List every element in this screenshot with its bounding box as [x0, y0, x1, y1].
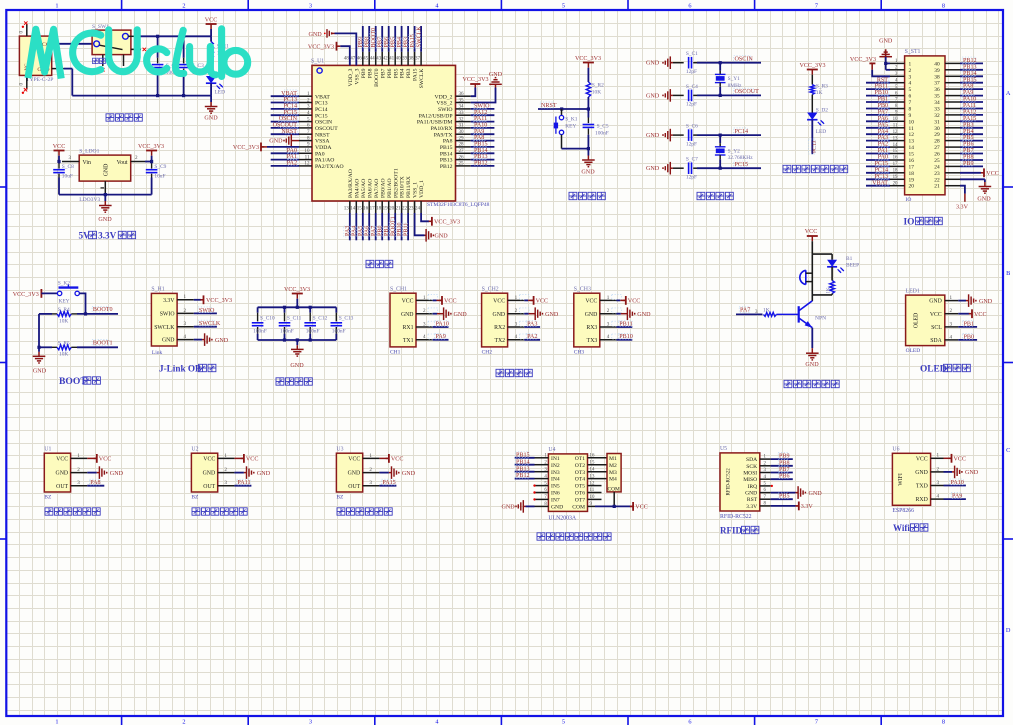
svg-text:24: 24	[934, 164, 940, 170]
svg-text:KEY: KEY	[59, 298, 70, 304]
svg-text:PA1: PA1	[287, 154, 297, 160]
svg-text:S_ST1: S_ST1	[905, 49, 921, 55]
connector T1 TYPE-C-2P	[19, 24, 65, 90]
U4 input net wires PB15-PB12	[515, 452, 535, 480]
svg-text:10: 10	[909, 119, 915, 125]
svg-text:PA3/RX/AO: PA3/RX/AO	[348, 169, 354, 198]
svg-text:1: 1	[224, 453, 227, 459]
svg-text:VCC: VCC	[493, 299, 505, 305]
ground of filter	[290, 340, 304, 369]
svg-text:PB13: PB13	[963, 64, 977, 70]
svg-text:32.768KHz: 32.768KHz	[728, 155, 754, 161]
svg-text:M4: M4	[609, 477, 617, 483]
U3 net connections	[379, 454, 415, 486]
svg-text:SWCLK: SWCLK	[199, 321, 221, 327]
svg-text:44: 44	[370, 56, 376, 62]
CH3 net connections	[617, 296, 652, 340]
svg-text:20: 20	[893, 181, 898, 186]
svg-text:PA10: PA10	[951, 480, 964, 486]
power VCC at U6 pin1	[944, 454, 967, 463]
svg-text:PA7/AO: PA7/AO	[374, 179, 380, 198]
svg-text:PB1/AO: PB1/AO	[387, 178, 393, 198]
svg-text:PB10: PB10	[619, 334, 633, 340]
svg-text:PA10: PA10	[474, 123, 487, 129]
svg-text:IO: IO	[904, 218, 915, 228]
ground at U5 pin6	[771, 486, 823, 499]
svg-text:2: 2	[515, 308, 518, 314]
svg-text:S_C1: S_C1	[686, 51, 698, 57]
svg-text:13: 13	[893, 136, 898, 141]
svg-text:RXD: RXD	[916, 497, 928, 503]
svg-text:GND: GND	[979, 299, 993, 305]
svg-text:PA11: PA11	[963, 103, 976, 109]
svg-text:PA2: PA2	[878, 142, 888, 148]
svg-text:KEY: KEY	[565, 124, 576, 130]
svg-text:VCC_3V3: VCC_3V3	[206, 298, 232, 304]
svg-text:7: 7	[815, 3, 818, 10]
svg-text:2: 2	[369, 467, 372, 473]
svg-text:Vin: Vin	[83, 160, 91, 166]
svg-text:PB14: PB14	[440, 151, 453, 157]
wire PA9 net at U6	[944, 493, 966, 500]
svg-text:IN2: IN2	[551, 463, 560, 469]
svg-text:12pF: 12pF	[686, 141, 697, 147]
svg-text:IN7: IN7	[551, 498, 560, 504]
svg-text:PB1: PB1	[964, 321, 975, 327]
svg-text:PA10: PA10	[963, 97, 976, 103]
svg-text:PB6: PB6	[387, 68, 393, 78]
svg-text:28: 28	[459, 142, 465, 148]
IR obstacle module U2	[191, 447, 234, 501]
svg-text:PA8: PA8	[90, 480, 100, 486]
svg-text:2: 2	[909, 68, 912, 74]
capacitor C8	[53, 162, 74, 195]
wire SWIO net	[194, 307, 217, 314]
no-connect dots on U4 pins 5-7	[533, 484, 535, 500]
svg-text:12pF: 12pF	[686, 69, 697, 75]
capacitor C13 of filter	[331, 307, 354, 340]
svg-text:PB7: PB7	[963, 148, 974, 154]
U1 left pins 1-12	[299, 91, 344, 170]
svg-text:1: 1	[55, 3, 58, 10]
svg-text:LED1: LED1	[906, 288, 920, 294]
svg-text:BZ: BZ	[336, 495, 344, 501]
wire PB0 net at OLED	[958, 333, 977, 340]
svg-text:PB5: PB5	[963, 135, 974, 141]
svg-text:4: 4	[607, 334, 610, 340]
svg-text:3: 3	[909, 74, 912, 80]
svg-text:2: 2	[182, 3, 185, 10]
svg-text:S_R5: S_R5	[58, 340, 70, 346]
svg-text:A: A	[1006, 90, 1011, 97]
svg-text:22: 22	[402, 206, 408, 212]
svg-text:VCC: VCC	[205, 17, 218, 23]
svg-text:U6: U6	[892, 447, 899, 453]
svg-text:PB6: PB6	[963, 142, 974, 148]
svg-text:PC14: PC14	[315, 107, 328, 113]
microcontroller U1 STM32F103C8T6 body	[311, 58, 490, 208]
svg-text:BEEP: BEEP	[846, 263, 859, 269]
svg-text:COM: COM	[572, 505, 585, 511]
stepper driver U4 ULN2003A body and pins	[535, 447, 595, 521]
svg-text:OLED: OLED	[906, 348, 921, 354]
buzzer B1	[800, 270, 813, 284]
svg-text:PB3: PB3	[963, 122, 974, 128]
section label 红外避障模块 U1	[45, 508, 100, 515]
svg-text:S_U1: S_U1	[311, 58, 324, 64]
svg-text:RFID-RC522: RFID-RC522	[727, 468, 732, 496]
U1 right pins 36-25	[417, 91, 471, 170]
ground at U1 pin47	[309, 29, 357, 65]
svg-text:IN3: IN3	[551, 470, 560, 476]
svg-text:28: 28	[934, 139, 940, 145]
stepper motor connector M1-M4	[607, 454, 621, 493]
svg-text:36: 36	[459, 91, 465, 97]
MCUclub logo overlay	[28, 29, 248, 79]
svg-text:45: 45	[363, 56, 369, 62]
svg-text:PA4: PA4	[878, 129, 888, 135]
svg-text:3: 3	[607, 321, 610, 327]
svg-text:SDA: SDA	[930, 338, 942, 344]
ground at ST1 pins 1-2	[879, 38, 893, 70]
wire power bottom bus	[64, 69, 211, 98]
svg-text:38: 38	[409, 56, 415, 62]
svg-text:GND: GND	[203, 471, 216, 477]
wire BOOT1 net	[77, 340, 118, 348]
svg-text:PA5/AO: PA5/AO	[361, 179, 367, 198]
svg-text:20: 20	[909, 184, 915, 190]
ground at ST1 pin22	[960, 179, 991, 202]
svg-text:PB9: PB9	[361, 68, 367, 78]
svg-text:PA11: PA11	[237, 480, 250, 486]
svg-text:14: 14	[350, 206, 356, 212]
svg-text:PB2/BOOT1: PB2/BOOT1	[393, 168, 399, 198]
svg-text:VCC: VCC	[246, 457, 259, 463]
svg-text:PA0: PA0	[315, 151, 325, 157]
svg-text:PA12: PA12	[474, 110, 487, 116]
svg-text:VCC_3V3: VCC_3V3	[434, 220, 460, 226]
LED D1	[206, 70, 231, 96]
svg-text:VCC_3V3: VCC_3V3	[799, 63, 825, 69]
svg-text:PA9: PA9	[952, 494, 962, 500]
svg-text:GND: GND	[348, 471, 361, 477]
svg-text:VCC_3V3: VCC_3V3	[138, 144, 164, 150]
svg-text:PA12: PA12	[963, 110, 976, 116]
svg-text:VBAT: VBAT	[315, 94, 330, 100]
U1 right net wires and labels	[471, 103, 495, 167]
svg-text:SDA: SDA	[746, 457, 757, 463]
svg-text:S_C8: S_C8	[62, 164, 74, 170]
svg-text:2: 2	[77, 467, 80, 473]
svg-text:23: 23	[934, 171, 940, 177]
svg-text:PB0: PB0	[877, 103, 888, 109]
svg-text:VSS_2: VSS_2	[436, 101, 452, 107]
svg-text:S_LDO1: S_LDO1	[79, 149, 99, 155]
svg-text:S_C4: S_C4	[686, 84, 698, 90]
capacitor C2	[152, 36, 180, 95]
svg-text:GND: GND	[104, 164, 110, 177]
svg-text:GND: GND	[977, 197, 991, 203]
svg-text:GND: GND	[929, 299, 942, 305]
svg-text:38: 38	[934, 74, 940, 80]
capacitor C1 with OSCIN net	[646, 51, 761, 75]
svg-text:SWIO: SWIO	[438, 107, 453, 113]
svg-text:PC13: PC13	[874, 174, 888, 180]
ST1 right net wires and labels	[960, 57, 983, 167]
power VCC_3V3 at U1 pin9 VDDA	[233, 143, 299, 152]
section label BOOT电路	[59, 376, 100, 387]
U1 bottom pins 13-24	[344, 168, 425, 213]
svg-text:Link: Link	[152, 350, 163, 356]
svg-text:6: 6	[688, 3, 691, 10]
power 3.3V at U5 pin8	[771, 502, 814, 511]
U2 net connections	[234, 454, 270, 486]
U1 top pins 48-37	[344, 52, 425, 89]
svg-text:SWCLK: SWCLK	[417, 26, 423, 48]
svg-text:OT7: OT7	[575, 498, 585, 504]
svg-text:13: 13	[344, 206, 350, 212]
svg-text:42: 42	[383, 56, 389, 62]
U5 SPI net wires PB9-PB6	[771, 453, 793, 480]
svg-text:PB4: PB4	[963, 129, 974, 135]
no-connect dot on U5 IRQ	[771, 485, 773, 487]
svg-text:VCC: VCC	[348, 457, 360, 463]
svg-text:IN4: IN4	[551, 477, 560, 483]
svg-text:SCL: SCL	[931, 325, 942, 331]
svg-text:GND: GND	[637, 312, 651, 318]
svg-text:PA9: PA9	[963, 90, 973, 96]
svg-text:PB0/AO: PB0/AO	[380, 178, 386, 198]
svg-text:RFID: RFID	[720, 526, 742, 536]
section label 滤波电路	[276, 378, 312, 385]
svg-text:29: 29	[459, 135, 465, 141]
svg-text:3.3V: 3.3V	[801, 504, 814, 510]
svg-text:46: 46	[357, 56, 363, 62]
svg-text:PA8: PA8	[443, 139, 453, 145]
svg-text:19: 19	[909, 177, 915, 183]
svg-text:PB8: PB8	[963, 155, 974, 161]
svg-text:PB4: PB4	[400, 68, 406, 78]
svg-text:100nF: 100nF	[332, 328, 346, 334]
svg-text:S_C13: S_C13	[339, 316, 354, 322]
power VCC_3V3 of BOOT circuit	[13, 289, 58, 298]
svg-text:37: 37	[415, 56, 421, 62]
svg-text:PB9: PB9	[779, 454, 790, 460]
svg-text:30: 30	[459, 129, 465, 135]
svg-text:S_D2: S_D2	[816, 108, 829, 114]
svg-text:PA1: PA1	[878, 148, 888, 154]
svg-text:GND: GND	[551, 505, 563, 511]
svg-text:PB15: PB15	[440, 145, 453, 151]
svg-text:OT2: OT2	[575, 463, 585, 469]
svg-text:OT5: OT5	[575, 484, 585, 490]
svg-text:PC15: PC15	[315, 113, 328, 119]
section label 程序运行指示灯	[783, 165, 848, 172]
wires U4 outputs to motor connector	[588, 458, 608, 500]
svg-text:IRQ: IRQ	[748, 484, 758, 490]
svg-text:GND: GND	[454, 312, 468, 318]
svg-text:GND: GND	[309, 32, 323, 38]
svg-text:VCC: VCC	[916, 456, 928, 462]
svg-text:PA1/AO: PA1/AO	[315, 158, 334, 164]
capacitor C11 of filter	[279, 307, 302, 340]
svg-text:13: 13	[909, 139, 915, 145]
svg-text:29: 29	[934, 132, 940, 138]
power VCC_3V3 at ST1 pin3	[850, 57, 890, 77]
svg-text:VSS_3: VSS_3	[354, 68, 360, 84]
svg-text:33: 33	[934, 107, 940, 113]
svg-text:35: 35	[459, 97, 465, 103]
svg-text:NPN: NPN	[815, 316, 826, 322]
svg-text:GND: GND	[745, 491, 757, 497]
svg-text:GND: GND	[489, 72, 503, 78]
svg-text:RFID-RC522: RFID-RC522	[720, 514, 752, 520]
svg-text:PA7: PA7	[740, 308, 750, 314]
svg-text:PB14: PB14	[963, 71, 977, 77]
svg-text:10K: 10K	[59, 318, 68, 324]
IR obstacle module U1	[44, 447, 87, 501]
OLED display LED1 body and pins	[906, 288, 959, 354]
capacitor C7 with PC15 net	[646, 157, 761, 181]
power VCC_3V3 at U1 pin48	[308, 42, 350, 66]
svg-text:PA15: PA15	[413, 68, 419, 81]
wire PB1 net at OLED	[958, 320, 977, 327]
svg-text:16: 16	[909, 158, 915, 164]
svg-text:C: C	[1006, 447, 1010, 454]
svg-text:5: 5	[562, 3, 565, 10]
ground at OLED pin1	[958, 294, 993, 307]
wire VCC top bus	[138, 35, 212, 38]
svg-text:10K: 10K	[592, 90, 601, 96]
svg-text:43: 43	[376, 56, 382, 62]
svg-text:PC14: PC14	[735, 129, 749, 135]
svg-text:VCC: VCC	[56, 457, 68, 463]
svg-text:PB11/RX: PB11/RX	[406, 176, 412, 198]
svg-text:100nF: 100nF	[253, 328, 267, 334]
ground of BOOT circuit	[33, 352, 47, 375]
svg-text:VCC: VCC	[628, 299, 641, 305]
svg-text:GND: GND	[402, 471, 416, 477]
svg-text:17: 17	[909, 164, 915, 170]
LED D2	[807, 108, 828, 135]
svg-text:PA5: PA5	[878, 122, 888, 128]
svg-text:S_C5: S_C5	[597, 123, 609, 129]
section label OLED显示屏	[920, 364, 970, 374]
svg-text:27: 27	[934, 145, 940, 151]
section label 串口电路	[496, 369, 532, 376]
svg-text:S_R2: S_R2	[592, 83, 604, 89]
svg-text:2: 2	[224, 467, 227, 473]
svg-text:VCC_3V3: VCC_3V3	[462, 77, 488, 83]
svg-text:PB12: PB12	[963, 58, 977, 64]
svg-text:GND: GND	[646, 166, 660, 172]
svg-text:U3: U3	[336, 447, 343, 453]
svg-text:31: 31	[934, 119, 940, 125]
svg-text:PA7: PA7	[878, 110, 888, 116]
svg-text:SWCLK: SWCLK	[419, 68, 425, 89]
section label 复位电路	[569, 192, 605, 199]
svg-text:S_C9: S_C9	[154, 164, 166, 170]
svg-text:48: 48	[344, 56, 350, 62]
svg-text:VCC_3V3: VCC_3V3	[850, 57, 876, 63]
svg-text:16: 16	[893, 156, 898, 161]
svg-text:3.3V: 3.3V	[746, 504, 757, 510]
svg-text:12pF: 12pF	[686, 102, 697, 108]
svg-text:OLED: OLED	[914, 313, 920, 328]
svg-text:100nF: 100nF	[280, 328, 294, 334]
svg-text:GND: GND	[585, 312, 598, 318]
svg-text:S_C11: S_C11	[287, 316, 302, 322]
svg-text:12pF: 12pF	[686, 175, 697, 181]
svg-text:S_C12: S_C12	[313, 316, 328, 322]
svg-text:VCC: VCC	[391, 457, 404, 463]
svg-text:VDD_3: VDD_3	[348, 68, 354, 86]
svg-text:GND: GND	[502, 505, 516, 511]
svg-text:PB11: PB11	[619, 321, 632, 327]
svg-text:3.3V: 3.3V	[163, 298, 175, 304]
svg-text:18: 18	[893, 169, 898, 174]
svg-text:OLED: OLED	[920, 365, 947, 375]
svg-text:M3: M3	[609, 470, 617, 476]
ground at H1 pin4	[194, 333, 229, 346]
wire NRST node	[538, 102, 590, 111]
svg-text:U2: U2	[191, 447, 198, 453]
svg-text:PB7: PB7	[779, 467, 790, 473]
svg-text:GND: GND	[110, 471, 124, 477]
svg-text:PA3: PA3	[878, 135, 888, 141]
section label 主芯片	[366, 260, 393, 267]
svg-text:11: 11	[909, 126, 914, 132]
svg-text:PA0: PA0	[878, 155, 888, 161]
svg-text:17: 17	[893, 162, 898, 167]
pushbutton K1 KEY	[554, 109, 578, 149]
svg-text:S_C10: S_C10	[260, 316, 275, 322]
svg-text:VDDA: VDDA	[315, 145, 332, 151]
CH1 net connections	[433, 296, 468, 340]
svg-text:14: 14	[893, 143, 898, 148]
svg-text:MOSI: MOSI	[743, 471, 757, 477]
power VCC	[205, 17, 218, 36]
svg-text:SWCLK: SWCLK	[154, 325, 175, 331]
svg-text:GND: GND	[290, 363, 304, 369]
svg-text:VSSA: VSSA	[315, 139, 330, 145]
svg-text:PA8: PA8	[963, 84, 973, 90]
capacitor C12 of filter	[304, 307, 327, 340]
svg-text:GND: GND	[435, 234, 449, 240]
svg-text:8MHz: 8MHz	[728, 83, 742, 89]
svg-text:S_Y2: S_Y2	[728, 148, 741, 154]
svg-text:32: 32	[934, 113, 940, 119]
svg-text:40: 40	[396, 56, 402, 62]
svg-text:VCC: VCC	[203, 457, 215, 463]
svg-text:27: 27	[459, 148, 465, 154]
svg-text:TX2: TX2	[494, 338, 505, 344]
svg-text:GND: GND	[646, 93, 660, 99]
svg-text:34: 34	[459, 104, 465, 110]
svg-text:LED: LED	[215, 90, 226, 96]
power VCC_3V3 at LDO output	[138, 144, 164, 163]
svg-text:BOOT0: BOOT0	[374, 68, 380, 86]
svg-text:GND: GND	[646, 133, 660, 139]
svg-text:11: 11	[305, 154, 310, 160]
wire T1 pin1 to SW1	[58, 43, 93, 45]
svg-text:7: 7	[815, 719, 818, 725]
svg-text:22: 22	[934, 177, 940, 183]
svg-text:23: 23	[409, 206, 415, 212]
svg-text:PB13: PB13	[440, 158, 453, 164]
power VCC_3V3 at U1 pin36	[462, 77, 488, 96]
svg-text:10K: 10K	[59, 352, 68, 358]
